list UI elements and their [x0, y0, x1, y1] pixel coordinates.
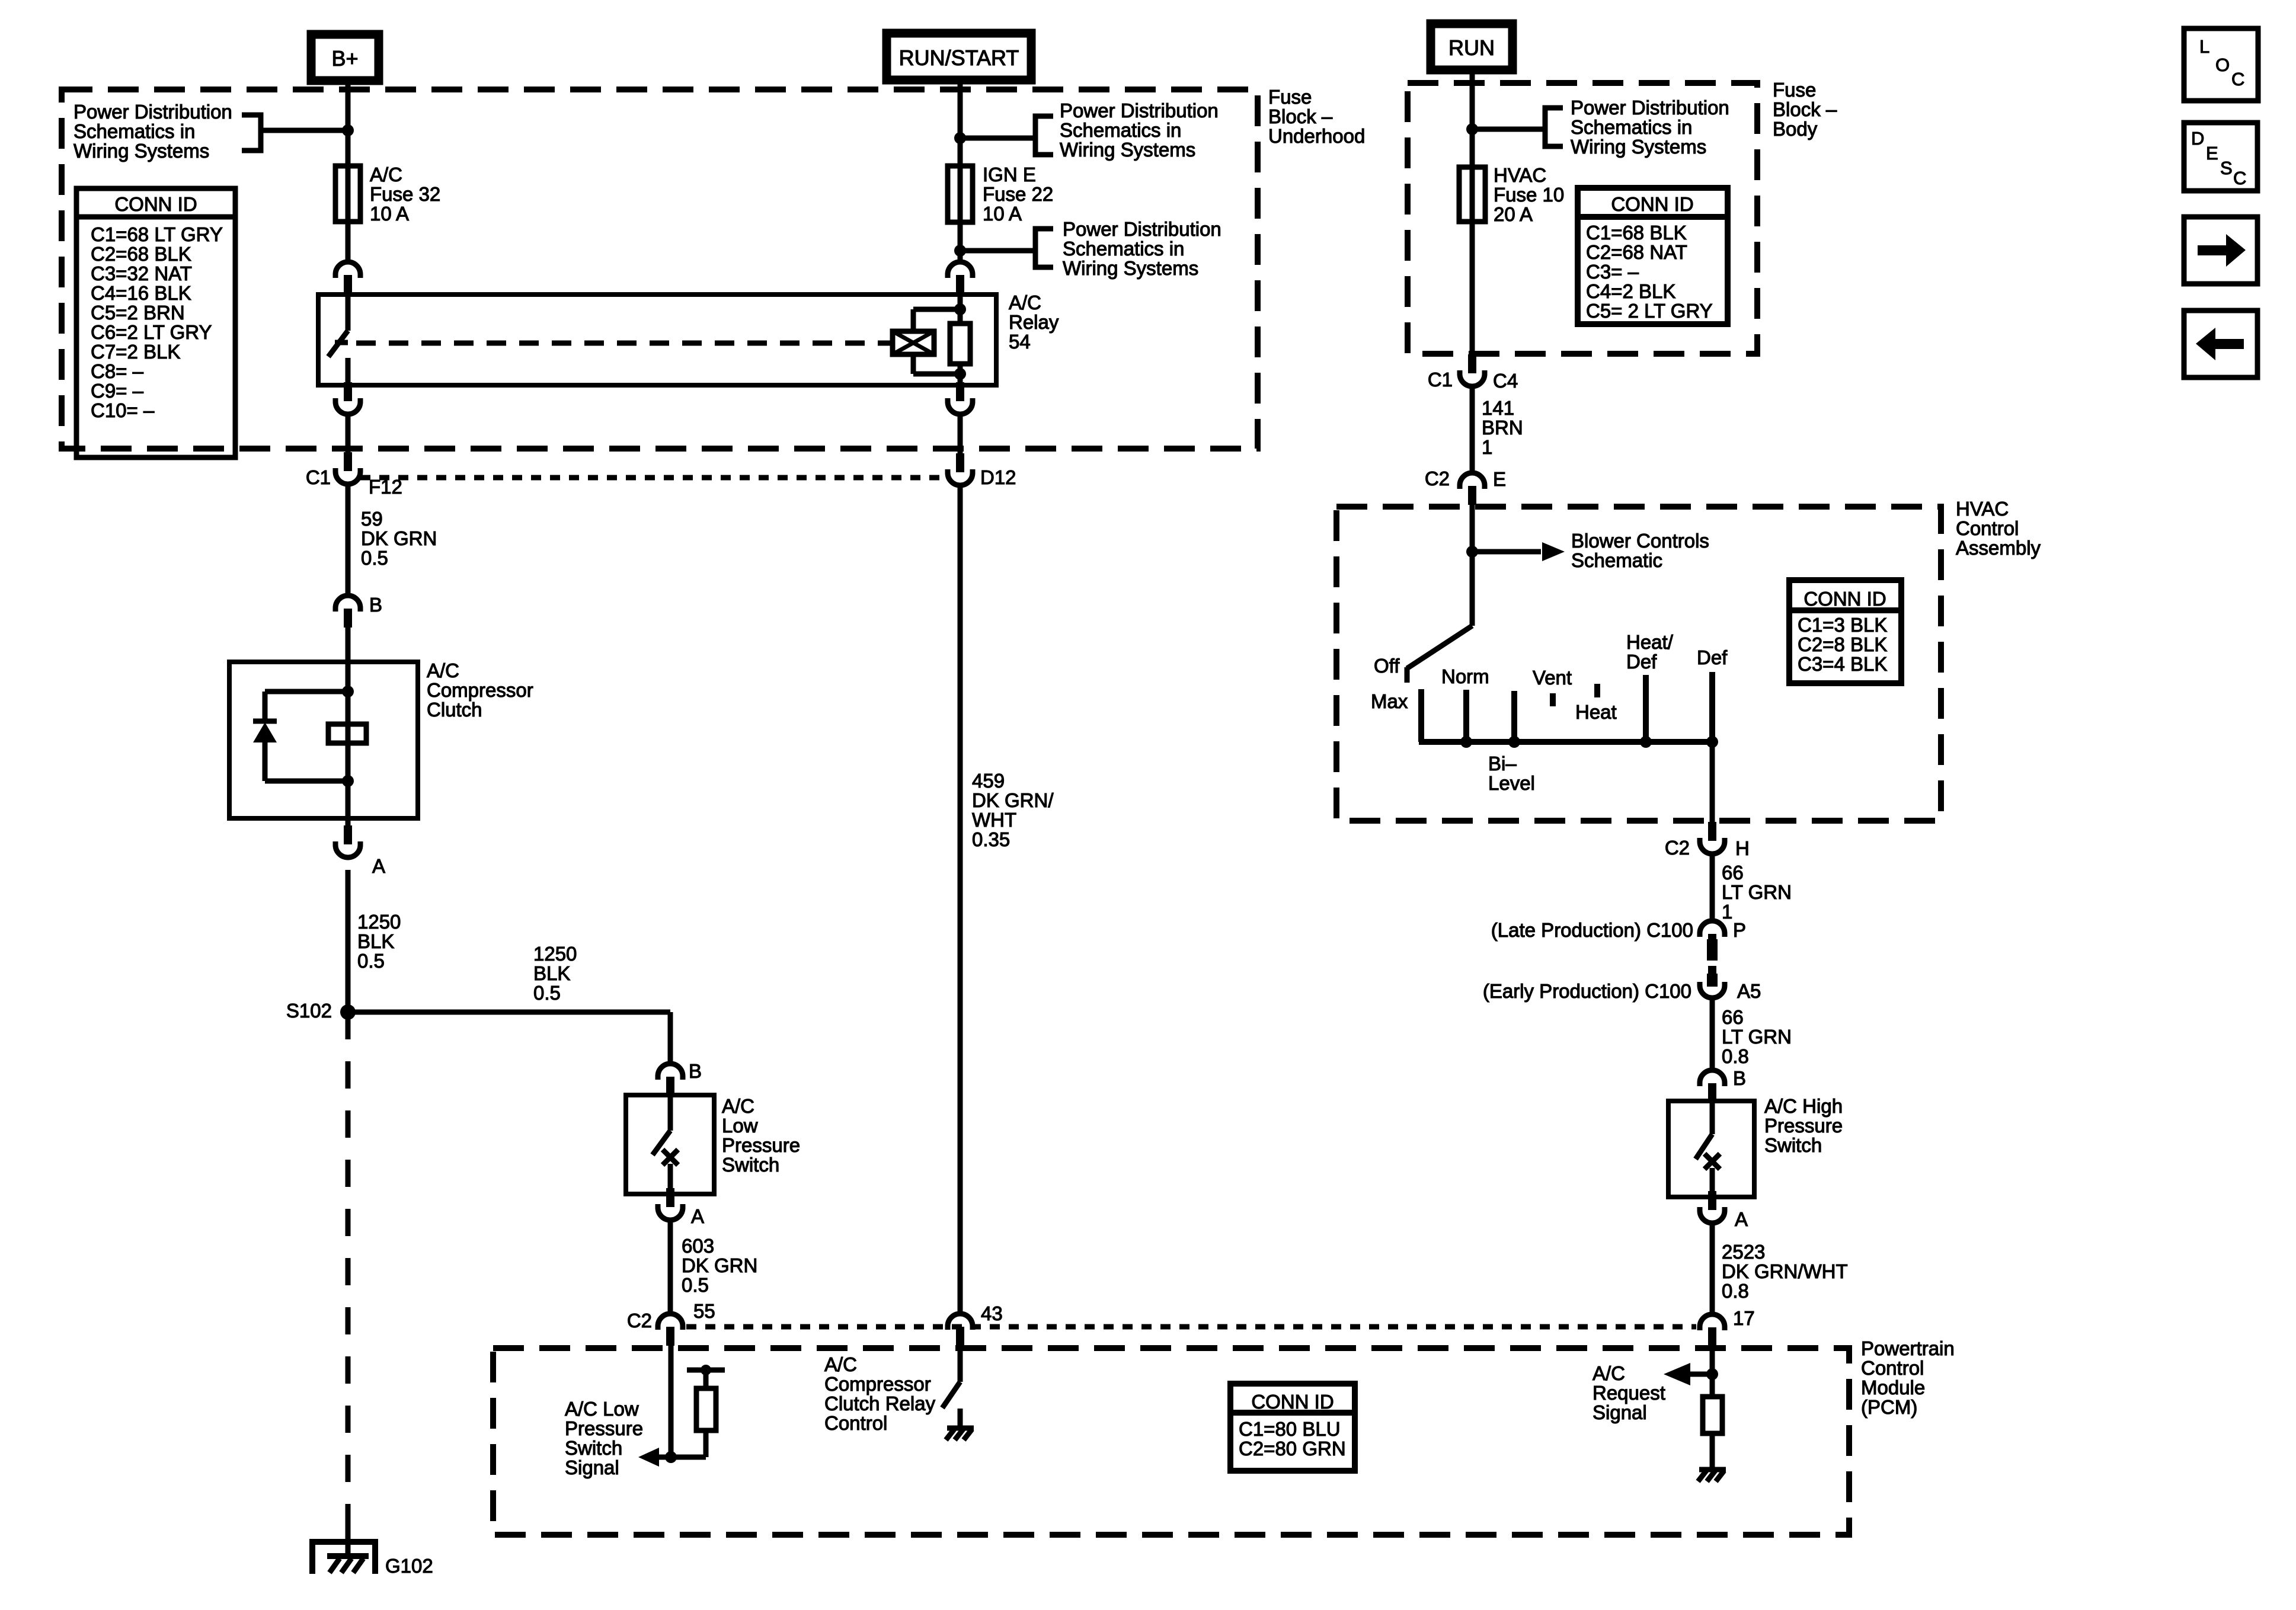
connector C100 A5 (early production): [1708, 966, 1716, 985]
svg-text:CONN ID: CONN ID: [114, 193, 197, 215]
svg-text:0.35: 0.35: [972, 828, 1010, 850]
low pressure switch contact: [668, 1095, 673, 1131]
connector into relay (below fuse 32): [335, 262, 360, 278]
svg-text:L: L: [2199, 36, 2209, 57]
connector A low pressure switch: [666, 1188, 674, 1207]
svg-text:Signal: Signal: [1593, 1401, 1647, 1423]
svg-text:Max: Max: [1371, 690, 1408, 712]
svg-text:HVAC: HVAC: [1494, 164, 1546, 186]
svg-text:Heat: Heat: [1575, 701, 1617, 723]
Heat/Def position stub: [1643, 675, 1649, 742]
conn id table body: [1578, 188, 1728, 324]
svg-text:Vent: Vent: [1533, 667, 1572, 689]
svg-text:C2=68 NAT: C2=68 NAT: [1586, 241, 1687, 263]
svg-text:C4=2 BLK: C4=2 BLK: [1586, 280, 1675, 302]
A/C high pressure switch box: [1668, 1101, 1754, 1197]
svg-text:RUN/START: RUN/START: [899, 46, 1019, 70]
Def position stub: [1709, 672, 1715, 742]
svg-text:A/C High: A/C High: [1764, 1095, 1843, 1117]
svg-text:HVAC: HVAC: [1956, 498, 2009, 520]
wire relay to D12: [958, 415, 963, 467]
svg-text:Request: Request: [1593, 1382, 1665, 1404]
bracket symbol lower right: [1035, 229, 1053, 267]
svg-text:Switch: Switch: [565, 1437, 622, 1459]
svg-text:(PCM): (PCM): [1861, 1396, 1917, 1418]
svg-text:A/C: A/C: [370, 164, 402, 185]
wire to bracket: [263, 128, 348, 133]
svg-text:S102: S102: [286, 1000, 332, 1022]
fuse F32 A/C Fuse 32 10A: [335, 166, 360, 222]
relay internal wiring + nodes: [958, 295, 963, 324]
bracket symbol upper right: [1035, 116, 1053, 155]
svg-text:CONN ID: CONN ID: [1611, 193, 1693, 215]
connector A compressor clutch: [344, 825, 352, 844]
svg-text:WHT: WHT: [972, 809, 1016, 831]
connector B compressor clutch: [335, 596, 360, 612]
svg-text:Pressure: Pressure: [565, 1417, 643, 1439]
svg-text:0.5: 0.5: [682, 1274, 709, 1296]
PCM dashed box: [493, 1348, 1849, 1535]
svg-text:Pressure: Pressure: [722, 1134, 800, 1156]
fuse block underhood dashed box: [62, 89, 1258, 449]
A/C compressor clutch box: [229, 662, 418, 818]
svg-text:Power Distribution: Power Distribution: [1063, 218, 1221, 240]
node junction to power distribution bracket: [342, 124, 354, 136]
wire B+ to fuse 32: [346, 81, 351, 263]
svg-text:Relay: Relay: [1009, 311, 1059, 333]
svg-text:Fuse 32: Fuse 32: [370, 183, 440, 205]
svg-text:A/C: A/C: [1593, 1362, 1625, 1384]
wire 1250 BLK 0.5: [346, 870, 351, 1014]
svg-text:Power Distribution: Power Distribution: [73, 101, 232, 123]
svg-text:B: B: [689, 1060, 702, 1082]
connector C100 P (late production): [1700, 921, 1725, 937]
node + arrow A/C low pressure switch signal: [665, 1451, 677, 1463]
svg-text:C9= –: C9= –: [91, 380, 144, 402]
LOC icon: [2184, 28, 2258, 101]
svg-text:C2=68 BLK: C2=68 BLK: [91, 243, 191, 265]
svg-text:S: S: [2220, 158, 2233, 178]
svg-text:CONN ID: CONN ID: [1251, 1391, 1334, 1413]
svg-text:Heat/: Heat/: [1626, 631, 1674, 653]
svg-text:Clutch: Clutch: [427, 699, 482, 721]
clutch internal wire + nodes: [346, 662, 351, 818]
svg-text:Wiring Systems: Wiring Systems: [73, 140, 209, 162]
svg-text:LT GRN: LT GRN: [1722, 881, 1792, 903]
svg-text:LT GRN: LT GRN: [1722, 1026, 1792, 1048]
node blower controls tap: [1466, 546, 1478, 558]
svg-text:A/C: A/C: [427, 660, 459, 681]
wire to bracket body: [1472, 127, 1546, 132]
svg-text:RUN: RUN: [1448, 36, 1495, 60]
arrow to blower controls schematic: [1472, 549, 1541, 555]
connector pin 43: [948, 1314, 973, 1330]
svg-text:59: 59: [361, 508, 383, 530]
svg-text:Wiring Systems: Wiring Systems: [1060, 139, 1195, 161]
svg-text:Control: Control: [1861, 1357, 1924, 1379]
svg-text:B+: B+: [331, 46, 358, 71]
svg-text:Wiring Systems: Wiring Systems: [1571, 136, 1706, 158]
relay coil control dashed wire: [356, 341, 893, 346]
node junction upper: [954, 132, 966, 144]
svg-text:C2=8 BLK: C2=8 BLK: [1798, 633, 1887, 655]
svg-text:1250: 1250: [533, 943, 577, 965]
svg-text:A: A: [1735, 1208, 1748, 1230]
wire Def to C2/H: [1710, 742, 1715, 822]
wire RUN to fuse 10: [1470, 70, 1475, 354]
svg-text:Block –: Block –: [1773, 98, 1837, 120]
DESC icon: [2184, 123, 2257, 191]
dotted harness line C1-D12: [360, 475, 947, 481]
svg-text:D: D: [2191, 128, 2204, 149]
forward arrow icon: [2184, 217, 2257, 284]
conn id table PCM: [1230, 1384, 1355, 1471]
svg-text:C7=2 BLK: C7=2 BLK: [91, 341, 180, 363]
pcm resistor (17): [1703, 1397, 1722, 1433]
conn id table underhood: [76, 188, 235, 457]
svg-text:Switch: Switch: [722, 1154, 779, 1176]
diode symbol: [253, 719, 277, 724]
connector A high pressure switch: [1708, 1191, 1716, 1210]
svg-text:H: H: [1735, 837, 1750, 859]
svg-text:Module: Module: [1861, 1377, 1925, 1398]
svg-text:0.5: 0.5: [533, 982, 561, 1004]
svg-text:C2=80 GRN: C2=80 GRN: [1239, 1438, 1346, 1459]
wire 2523 DK GRN/WHT 0.8: [1710, 1224, 1715, 1315]
ground inside PCM (left): [958, 1409, 963, 1428]
svg-text:BLK: BLK: [357, 930, 394, 952]
svg-text:A: A: [372, 855, 385, 877]
pcm request signal node + arrow: [1710, 1346, 1715, 1397]
svg-text:C3= –: C3= –: [1586, 261, 1639, 283]
svg-text:Control: Control: [824, 1412, 887, 1434]
svg-text:55: 55: [693, 1300, 715, 1322]
wire to bracket upper right: [960, 136, 1036, 141]
svg-text:DK GRN/: DK GRN/: [972, 789, 1054, 811]
svg-text:B: B: [369, 594, 382, 616]
wire 59 DK GRN 0.5: [346, 485, 351, 594]
pcm pull-up resistor (55): [703, 1430, 709, 1457]
svg-text:C2: C2: [627, 1310, 652, 1331]
svg-text:C1=3 BLK: C1=3 BLK: [1798, 614, 1887, 636]
RUN terminal label box: [1431, 24, 1512, 70]
svg-text:0.5: 0.5: [361, 547, 388, 569]
svg-text:0.8: 0.8: [1722, 1280, 1749, 1302]
svg-text:Compressor: Compressor: [427, 679, 533, 701]
svg-text:E: E: [1493, 468, 1506, 490]
svg-text:C2: C2: [1665, 837, 1690, 859]
Norm position stub: [1463, 690, 1469, 742]
bracket symbol body: [1545, 108, 1563, 146]
dashed ground wire below S102: [346, 1012, 351, 1524]
svg-text:C8= –: C8= –: [91, 360, 144, 382]
wire relay to C1: [346, 415, 351, 465]
svg-text:17: 17: [1733, 1307, 1755, 1329]
connector C1 C4: [1468, 354, 1476, 373]
svg-text:Powertrain: Powertrain: [1861, 1337, 1955, 1359]
connector pin 17: [1700, 1314, 1725, 1330]
svg-text:B: B: [1733, 1067, 1746, 1089]
svg-text:C5=2 BRN: C5=2 BRN: [91, 302, 185, 324]
svg-text:Fuse 22: Fuse 22: [983, 183, 1053, 205]
pcm driver switch for clutch relay: [958, 1346, 963, 1382]
svg-text:C: C: [2233, 168, 2246, 188]
svg-text:Blower Controls: Blower Controls: [1571, 530, 1709, 552]
svg-text:Fuse 10: Fuse 10: [1494, 184, 1564, 206]
svg-text:54: 54: [1009, 331, 1031, 353]
svg-text:Schematics in: Schematics in: [1063, 238, 1184, 260]
bracket symbol: [242, 115, 261, 151]
svg-text:Schematic: Schematic: [1571, 549, 1662, 571]
connector C2 E: [1460, 473, 1485, 489]
svg-text:Schematics in: Schematics in: [1060, 119, 1181, 141]
fuse F22 IGN E Fuse 22 10A: [948, 166, 973, 222]
svg-text:Level: Level: [1488, 772, 1535, 794]
svg-text:Power Distribution: Power Distribution: [1571, 97, 1729, 119]
wire into mode switch: [1470, 505, 1475, 626]
svg-text:C3=32 NAT: C3=32 NAT: [91, 263, 192, 284]
svg-text:C6=2 LT GRY: C6=2 LT GRY: [91, 321, 212, 343]
svg-text:C: C: [2231, 69, 2244, 89]
svg-text:(Late Production) C100: (Late Production) C100: [1491, 919, 1693, 941]
svg-text:Def: Def: [1626, 651, 1657, 673]
svg-text:CONN ID: CONN ID: [1803, 588, 1886, 610]
HVAC control assembly dashed box: [1336, 507, 1941, 821]
svg-text:C1: C1: [306, 466, 331, 488]
RUN/START terminal label box: [887, 33, 1031, 80]
svg-text:(Early Production) C100: (Early Production) C100: [1483, 980, 1691, 1002]
svg-text:Low: Low: [722, 1115, 758, 1137]
svg-text:A/C Low: A/C Low: [565, 1398, 639, 1420]
svg-text:IGN E: IGN E: [983, 164, 1036, 185]
wire RUN/START to fuse 22: [958, 80, 963, 263]
node junction body: [1466, 123, 1478, 135]
wire 66 LT GRN 0.8: [1710, 998, 1715, 1071]
wire to bracket lower right: [960, 248, 1036, 254]
connector C2 pin 55: [658, 1314, 683, 1330]
svg-text:Def: Def: [1697, 646, 1728, 668]
svg-text:603: 603: [682, 1235, 714, 1257]
high pressure switch contact: [1710, 1101, 1715, 1134]
connector below relay (left): [344, 382, 352, 401]
svg-text:Underhood: Underhood: [1268, 125, 1365, 147]
svg-text:DK GRN/WHT: DK GRN/WHT: [1722, 1260, 1848, 1282]
svg-text:O: O: [2215, 55, 2230, 75]
svg-text:C5= 2 LT GRY: C5= 2 LT GRY: [1586, 300, 1713, 322]
svg-text:A/C: A/C: [824, 1353, 857, 1375]
wire 66 LT GRN 1: [1710, 854, 1715, 922]
svg-text:BLK: BLK: [533, 962, 570, 984]
connector C2 H: [1708, 822, 1716, 841]
fuse block body dashed box: [1408, 83, 1757, 354]
ground inside PCM (right): [1699, 1467, 1726, 1473]
svg-text:C10= –: C10= –: [91, 399, 155, 421]
connector C1 F12: [344, 452, 352, 471]
svg-text:A: A: [691, 1205, 704, 1227]
svg-text:0.8: 0.8: [1722, 1045, 1749, 1067]
svg-text:43: 43: [981, 1302, 1003, 1324]
svg-text:20 A: 20 A: [1494, 203, 1533, 225]
pcm wire to signal node: [669, 1346, 674, 1457]
svg-text:1: 1: [1722, 901, 1732, 923]
svg-text:Fuse: Fuse: [1773, 79, 1816, 101]
connector into relay (below fuse 22): [948, 262, 973, 278]
Bi-Level position stub: [1511, 691, 1517, 742]
node junction lower: [954, 245, 966, 257]
svg-text:Body: Body: [1773, 118, 1818, 140]
splice S102: [340, 1004, 356, 1020]
svg-text:A/C: A/C: [1009, 292, 1041, 313]
svg-text:F12: F12: [369, 476, 402, 498]
clutch coil: [328, 724, 366, 743]
svg-text:P: P: [1733, 919, 1746, 941]
svg-text:66: 66: [1722, 862, 1744, 884]
relay K54 A/C Relay box: [318, 295, 996, 385]
B+ terminal label box: [311, 34, 379, 81]
svg-text:Control: Control: [1956, 517, 2019, 539]
conn id table HVAC: [1789, 580, 1901, 683]
svg-text:C2: C2: [1425, 468, 1450, 489]
svg-text:C1: C1: [1428, 369, 1453, 391]
svg-text:C3=4 BLK: C3=4 BLK: [1798, 653, 1887, 675]
svg-text:Switch: Switch: [1764, 1134, 1822, 1156]
dashed jumper between C100 halves: [1707, 939, 1718, 987]
svg-text:BRN: BRN: [1482, 417, 1523, 438]
wire 603 DK GRN 0.5: [668, 1221, 673, 1314]
svg-text:Assembly: Assembly: [1956, 537, 2041, 559]
svg-text:C1=80 BLU: C1=80 BLU: [1239, 1418, 1341, 1440]
wire into clutch box: [346, 628, 351, 662]
svg-text:Schematics in: Schematics in: [73, 120, 195, 142]
svg-text:Signal: Signal: [565, 1457, 619, 1478]
svg-text:2523: 2523: [1722, 1241, 1765, 1263]
svg-text:1250: 1250: [357, 911, 401, 933]
svg-text:E: E: [2206, 143, 2218, 164]
svg-text:10 A: 10 A: [983, 203, 1022, 225]
relay coil (box with X): [893, 331, 934, 354]
wire S102 to low pressure switch: [348, 1010, 670, 1015]
svg-text:Off: Off: [1374, 655, 1400, 677]
dotted harness line PCM pins: [686, 1324, 1696, 1330]
mode positions bus: [1419, 739, 1712, 745]
svg-text:C1=68 BLK: C1=68 BLK: [1586, 222, 1687, 244]
svg-text:Pressure: Pressure: [1764, 1115, 1843, 1137]
svg-text:0.5: 0.5: [357, 950, 385, 972]
svg-text:DK GRN: DK GRN: [361, 527, 437, 549]
svg-text:G102: G102: [385, 1555, 433, 1577]
connector D12: [956, 453, 964, 472]
svg-text:Fuse: Fuse: [1268, 86, 1312, 108]
ground G102 symbol: [312, 1542, 375, 1574]
back arrow icon: [2184, 311, 2257, 377]
svg-text:66: 66: [1722, 1006, 1744, 1028]
svg-text:141: 141: [1482, 397, 1514, 419]
wire 141 BRN 1: [1470, 387, 1475, 473]
svg-text:A/C: A/C: [722, 1095, 754, 1117]
svg-text:D12: D12: [980, 466, 1016, 488]
svg-text:Bi–: Bi–: [1488, 753, 1517, 774]
Heat position tick: [1594, 684, 1600, 697]
svg-text:10 A: 10 A: [370, 203, 409, 225]
svg-text:Compressor: Compressor: [824, 1373, 931, 1395]
Vent position tick: [1550, 693, 1556, 706]
svg-text:C4: C4: [1493, 370, 1518, 392]
connector B high pressure switch: [1700, 1070, 1725, 1086]
Max position stub: [1418, 689, 1424, 742]
svg-text:C1=68 LT GRY: C1=68 LT GRY: [91, 223, 223, 245]
svg-text:Power Distribution: Power Distribution: [1060, 100, 1219, 121]
svg-text:C4=16 BLK: C4=16 BLK: [91, 282, 191, 304]
svg-text:Wiring Systems: Wiring Systems: [1063, 257, 1198, 279]
svg-text:1: 1: [1482, 436, 1492, 458]
svg-text:Schematics in: Schematics in: [1571, 116, 1692, 138]
connector below relay (right): [956, 382, 964, 401]
A/C low pressure switch box: [626, 1095, 714, 1194]
relay internal resistor: [950, 324, 970, 364]
connector B low pressure switch: [658, 1064, 683, 1080]
clutch suppression diode branch: [265, 689, 348, 694]
mode switch blade to Off: [1407, 626, 1472, 668]
svg-text:Block –: Block –: [1268, 105, 1333, 127]
svg-text:459: 459: [972, 770, 1005, 792]
svg-text:Norm: Norm: [1441, 665, 1489, 687]
relay switch contact: [346, 295, 351, 331]
wire 459 DK GRN/WHT 0.35: [958, 486, 963, 1314]
svg-text:A5: A5: [1737, 980, 1761, 1002]
svg-text:Clutch Relay: Clutch Relay: [824, 1393, 936, 1414]
fuse F10 HVAC Fuse 10 20A: [1459, 167, 1485, 222]
svg-text:DK GRN: DK GRN: [682, 1254, 757, 1276]
